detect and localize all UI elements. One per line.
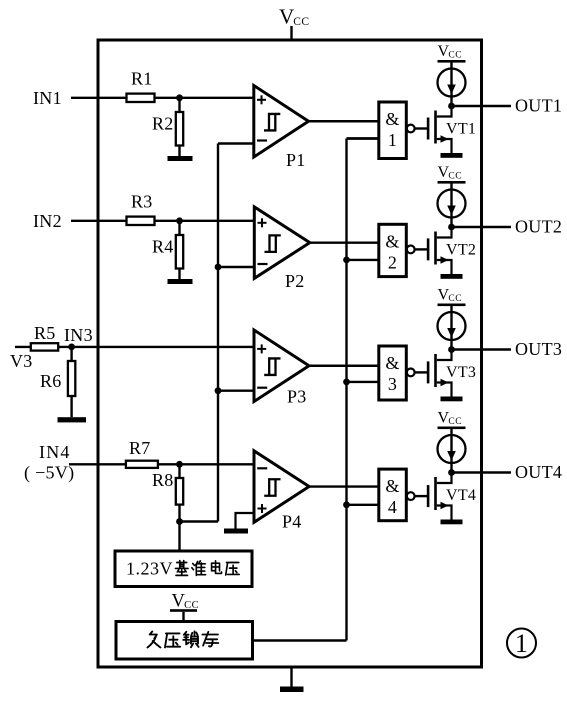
wire OUT4 xyxy=(452,471,512,473)
pin - of P3 xyxy=(257,387,267,389)
wire reference bus to R8 node xyxy=(180,520,219,522)
ground at VT3 source xyxy=(441,397,463,402)
wire reference bus to P3 minus xyxy=(218,390,255,392)
junction on reference bus row 3 xyxy=(215,387,222,394)
wire latch bus vertical xyxy=(345,139,347,641)
ground under R4 xyxy=(168,279,193,284)
wire junction to R8 xyxy=(178,464,180,478)
wire gate 1 output to VT1 gate xyxy=(415,127,427,129)
junction on latch bus row 3 xyxy=(343,379,350,386)
svg-text:IN2: IN2 xyxy=(33,211,62,231)
transistor VT3 channel bar xyxy=(434,354,437,387)
svg-text:P2: P2 xyxy=(285,271,305,291)
svg-text:R2: R2 xyxy=(152,114,174,134)
wire P4 plus to ground xyxy=(236,513,256,529)
wire gate1 second input to latch bus xyxy=(347,137,380,139)
inverter bubble gate 1 output xyxy=(407,125,415,133)
wire P1 minus to reference bus xyxy=(218,142,255,144)
label 欠压锁存 (undervoltage latch) xyxy=(147,632,160,648)
junction on latch bus row 4 xyxy=(343,501,350,508)
transistor VT2 drain lead xyxy=(437,227,452,238)
resistor R2 xyxy=(176,112,183,146)
transistor VT1 source arrow xyxy=(441,135,449,142)
wire Vcc to current source 2 xyxy=(450,184,452,228)
wire Vcc to current source 3 xyxy=(450,306,452,350)
current source 4 arrow xyxy=(447,451,456,461)
figure number circled 1 xyxy=(507,629,536,658)
NAND gate 2 box xyxy=(379,224,407,276)
transistor VT2 source arrow xyxy=(441,256,449,263)
svg-text:R8: R8 xyxy=(152,470,174,490)
wire gate 4 output to VT4 gate xyxy=(415,495,427,497)
junction on reference bus row 2 xyxy=(215,264,222,271)
wire reference bus vertical (1.23V net) xyxy=(217,144,219,522)
transistor VT1 channel bar xyxy=(434,111,437,144)
svg-text:&: & xyxy=(385,109,399,129)
node drain VT1 xyxy=(448,103,455,110)
wire OUT1 xyxy=(452,105,512,107)
svg-text:CC: CC xyxy=(448,417,462,427)
wire R7 to comparator P4 xyxy=(158,463,255,465)
pin + of P2 xyxy=(258,222,267,224)
svg-text:VT4: VT4 xyxy=(446,487,476,504)
current source 3 arrow xyxy=(447,328,456,338)
junction divider node 1 xyxy=(176,94,183,101)
ground at VT1 source xyxy=(441,153,463,158)
wire IN2 to R3 xyxy=(71,220,127,222)
ground at P4 plus xyxy=(224,529,248,534)
svg-text:1: 1 xyxy=(515,629,528,658)
op-amp comparator P4 xyxy=(254,451,309,523)
svg-text:V3: V3 xyxy=(10,351,33,371)
resistor R1 xyxy=(127,94,155,102)
transistor VT2 source lead xyxy=(437,260,452,274)
wire Vcc stem to chip top xyxy=(290,26,292,40)
junction node IN3 xyxy=(68,344,75,351)
transistor VT3 gate bar xyxy=(427,361,430,383)
svg-text:IN4: IN4 xyxy=(39,442,71,462)
block 1.23V reference voltage xyxy=(115,551,252,587)
svg-text:4: 4 xyxy=(388,497,397,517)
wire V3 to R5 xyxy=(15,346,31,348)
inverter bubble gate 3 output xyxy=(407,369,415,377)
junction divider node 2 xyxy=(176,217,183,224)
wire IN1 to R1 xyxy=(71,97,127,99)
resistor R6 xyxy=(68,361,75,396)
chip boundary box xyxy=(98,40,482,667)
svg-text:P1: P1 xyxy=(286,150,306,170)
wire R2 to ground xyxy=(178,146,180,157)
hysteresis symbol P2 xyxy=(265,235,281,252)
ground at VT4 source xyxy=(441,520,463,525)
svg-text:R4: R4 xyxy=(152,237,174,257)
svg-text:&: & xyxy=(385,476,399,496)
svg-text:CC: CC xyxy=(448,172,462,182)
resistor R8 xyxy=(176,478,183,505)
pin + of P1 xyxy=(257,99,266,101)
wire R8 to reference node xyxy=(178,505,180,551)
transistor VT4 source arrow xyxy=(441,502,449,509)
pin - of P1 xyxy=(257,139,267,141)
svg-text:1: 1 xyxy=(388,130,397,150)
svg-text:R3: R3 xyxy=(131,191,153,211)
svg-text:CC: CC xyxy=(448,294,462,304)
transistor VT4 drain lead xyxy=(437,473,452,484)
junction node IN4/R8 xyxy=(176,461,183,468)
wire IN4 to R7 xyxy=(69,463,126,465)
wire Vcc to current source 1 xyxy=(450,63,452,107)
ground under R6 xyxy=(58,417,87,422)
pin + of P3 xyxy=(257,348,266,350)
wire latch bus to gate 1 second input xyxy=(347,137,380,139)
wire latch bus to undervoltage latch output xyxy=(252,639,347,641)
pin + of P4 (bottom) xyxy=(258,508,267,510)
transistor VT4 gate bar xyxy=(427,485,430,507)
wire R6 to ground xyxy=(70,396,72,417)
wire latch bus to gate 3 second input xyxy=(347,381,380,383)
wire gate 2 output to VT2 gate xyxy=(415,248,427,250)
current source 3 circle xyxy=(438,312,466,340)
junction on latch bus row 2 xyxy=(343,257,350,264)
wire OUT3 xyxy=(452,348,512,350)
wire junction to R4 xyxy=(178,221,180,235)
wire R4 to ground xyxy=(178,269,180,280)
op-amp comparator P1 xyxy=(254,86,309,158)
svg-text:P4: P4 xyxy=(282,512,302,532)
svg-text:&: & xyxy=(385,231,399,251)
wire OUT2 xyxy=(452,226,512,228)
resistor R4 xyxy=(176,235,183,269)
svg-text:VT1: VT1 xyxy=(446,121,476,138)
transistor VT1 gate bar xyxy=(427,118,430,140)
svg-text:&: & xyxy=(385,353,399,373)
wire latch bus to gate 2 second input xyxy=(347,259,380,261)
resistor R7 xyxy=(126,461,158,468)
label 基准电压 (reference voltage) xyxy=(175,561,188,576)
Vcc rail bar 3 xyxy=(438,304,466,307)
op-amp comparator P2 xyxy=(254,207,309,279)
svg-text:3: 3 xyxy=(388,374,397,394)
Vcc rail bar 4 xyxy=(438,427,466,430)
wire R1 to comparator xyxy=(155,97,255,99)
wire junction to R2 xyxy=(178,98,180,112)
op-amp comparator P3 xyxy=(254,330,309,402)
ground (chip substrate) xyxy=(280,687,304,693)
wire R3 to comparator xyxy=(155,220,256,222)
current source 1 arrow xyxy=(447,85,456,95)
node drain VT4 xyxy=(448,469,455,476)
junction reference node xyxy=(176,518,183,525)
svg-text:OUT2: OUT2 xyxy=(515,217,562,237)
pin - of P2 xyxy=(258,263,268,265)
svg-text:VT3: VT3 xyxy=(446,364,476,381)
wire gate 3 output to VT3 gate xyxy=(415,371,427,373)
transistor VT2 channel bar xyxy=(434,232,437,265)
transistor VT2 gate bar xyxy=(427,238,430,260)
svg-text:R5: R5 xyxy=(34,323,56,343)
svg-text:R1: R1 xyxy=(131,68,153,88)
hysteresis symbol P1 xyxy=(264,114,280,131)
transistor VT1 source lead xyxy=(437,139,452,153)
wire P2 output to gate 2 xyxy=(310,241,380,243)
svg-text:1.23V: 1.23V xyxy=(126,559,173,579)
Vcc rail bar 2 xyxy=(438,181,466,184)
inverter bubble gate 2 output xyxy=(407,246,415,254)
wire P4 output to gate 4 xyxy=(309,485,380,487)
svg-text:2: 2 xyxy=(388,252,397,272)
svg-text:R6: R6 xyxy=(40,371,62,391)
svg-text:P3: P3 xyxy=(287,387,307,407)
svg-text:OUT4: OUT4 xyxy=(515,462,562,482)
wire P3 output to gate 3 xyxy=(309,365,380,367)
node drain VT3 xyxy=(448,346,455,353)
Vcc rail bar 1 xyxy=(438,60,466,63)
svg-text:OUT1: OUT1 xyxy=(515,96,562,116)
hysteresis symbol P4 xyxy=(264,479,280,496)
transistor VT3 source lead xyxy=(437,383,452,397)
transistor VT4 source lead xyxy=(437,506,452,520)
wire R5 to comparator P3 xyxy=(58,346,255,348)
NAND gate 1 box xyxy=(379,102,407,159)
svg-text:( −5V): ( −5V) xyxy=(24,463,74,484)
svg-text:OUT3: OUT3 xyxy=(515,339,562,359)
Vcc rail bar latch xyxy=(170,609,197,612)
wire P1 output to gate 1 xyxy=(309,120,380,122)
svg-text:IN3: IN3 xyxy=(64,325,93,345)
hysteresis symbol P3 xyxy=(264,358,280,375)
wire Vcc to current source 4 xyxy=(450,429,452,473)
block undervoltage latch (欠压锁存) xyxy=(116,622,253,660)
NAND gate 4 box xyxy=(379,469,407,521)
NAND gate 3 box xyxy=(379,346,407,400)
wire reference bus to P2 minus xyxy=(218,266,255,268)
wire Vcc to latch block xyxy=(182,612,184,622)
inverter bubble gate 4 output xyxy=(407,492,415,500)
ground under R2 xyxy=(168,156,193,161)
svg-text:CC: CC xyxy=(448,51,462,61)
ground at VT2 source xyxy=(441,274,463,279)
resistor R3 xyxy=(127,217,155,225)
svg-text:VT2: VT2 xyxy=(446,242,476,259)
svg-text:IN1: IN1 xyxy=(33,88,62,108)
current source 1 circle xyxy=(438,69,466,97)
transistor VT1 drain lead xyxy=(437,106,452,117)
pin - of P4 (top) xyxy=(257,467,267,469)
current source 4 circle xyxy=(438,435,466,463)
current source 2 arrow xyxy=(447,206,456,216)
wire junction to R6 xyxy=(70,347,72,361)
current source 2 circle xyxy=(438,190,466,218)
wire chip bottom to ground xyxy=(290,667,292,687)
svg-text:CC: CC xyxy=(293,16,309,28)
wire latch bus to gate 4 second input xyxy=(347,504,380,506)
resistor R5 xyxy=(31,343,58,350)
svg-text:R7: R7 xyxy=(129,438,151,458)
transistor VT4 channel bar xyxy=(434,477,437,510)
svg-text:V: V xyxy=(279,5,294,29)
transistor VT3 drain lead xyxy=(437,350,452,361)
node drain VT2 xyxy=(448,224,455,231)
transistor VT3 source arrow xyxy=(441,379,449,386)
